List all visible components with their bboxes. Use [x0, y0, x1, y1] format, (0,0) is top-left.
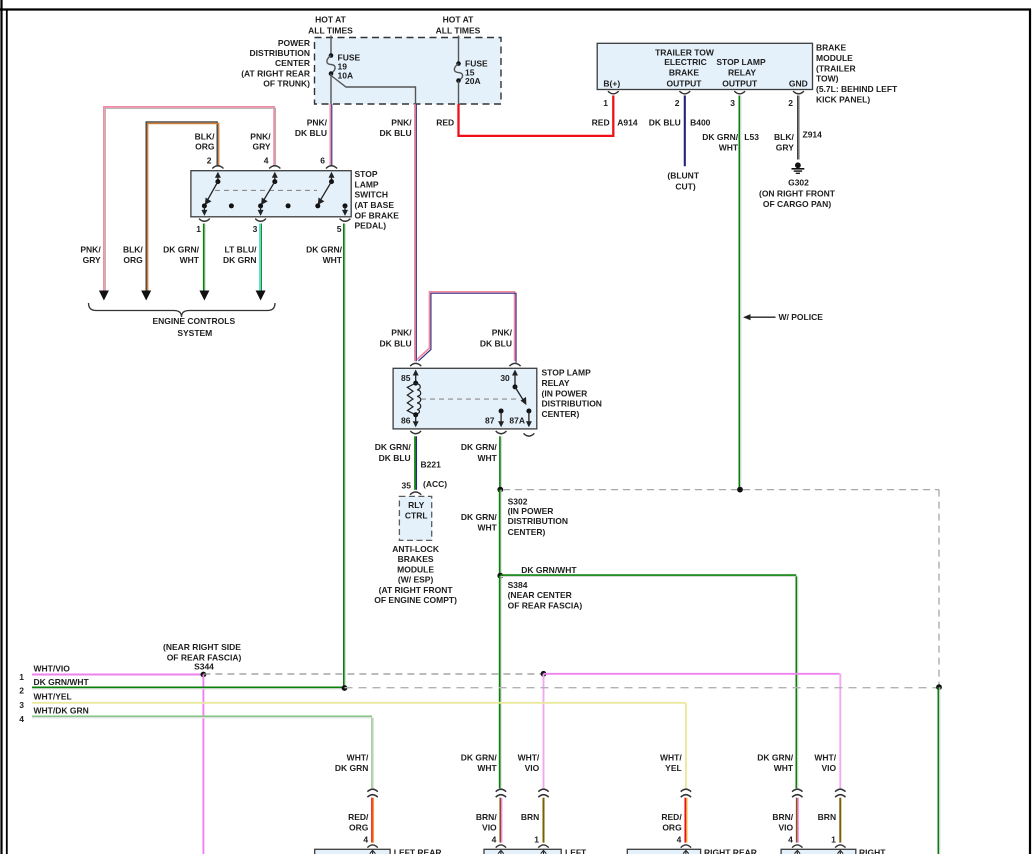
svg-text:CTRL: CTRL	[405, 511, 428, 521]
pin 1 number	[534, 835, 539, 845]
svg-text:HOT AT: HOT AT	[315, 15, 346, 25]
svg-text:OF BRAKE: OF BRAKE	[355, 210, 400, 220]
switch pin 5 connector arc	[340, 219, 351, 222]
svg-text:BRN: BRN	[818, 812, 836, 822]
svg-text:B400: B400	[690, 118, 711, 128]
pin 1 number	[831, 835, 836, 845]
inline connector at x=372.6 (WHT/DK GRN to RED/ORG)	[367, 789, 377, 797]
wire W/ POLICE arrow	[743, 314, 776, 320]
svg-text:STOP LAMP: STOP LAMP	[542, 368, 592, 378]
svg-text:4: 4	[19, 714, 24, 724]
label DK GRN/WHT (wire 2)	[34, 677, 90, 687]
page frame right border	[1029, 10, 1031, 854]
svg-text:BRN: BRN	[521, 812, 539, 822]
wire DK GRN/WHT right side down to bottom	[938, 687, 939, 854]
wire from HOT AT to fuse 19	[330, 36, 332, 56]
node S344 junction dot	[201, 672, 207, 678]
wire WHT/VIO splice to right lamp	[544, 674, 841, 788]
label S302 (IN POWER DISTRIBUTION CENTER)	[508, 496, 568, 537]
label BRN/VIO (below connector)	[772, 812, 793, 832]
label BLK/GRY / Z914	[774, 130, 822, 153]
inline connector at x=797.3 (DK GRN/WHT to BRN/VIO)	[792, 789, 802, 797]
svg-text:4: 4	[788, 835, 793, 845]
svg-text:BLK/: BLK/	[774, 132, 794, 142]
svg-text:PEDAL): PEDAL)	[355, 221, 387, 231]
wire fuse 19 branch to second output	[331, 76, 416, 105]
label B(+)	[603, 78, 620, 88]
svg-text:RED: RED	[592, 118, 610, 128]
svg-text:L53: L53	[744, 132, 759, 142]
pin 2 connector arc GND	[793, 91, 804, 94]
page frame left outer border	[0, 0, 2, 854]
wire 2 DK GRN/WHT horizontal	[32, 687, 345, 688]
label ELECTRIC BRAKE OUTPUT	[664, 57, 707, 88]
svg-text:KICK PANEL): KICK PANEL)	[816, 95, 870, 105]
svg-text:ORG: ORG	[662, 822, 682, 832]
svg-text:DISTRIBUTION: DISTRIBUTION	[250, 48, 310, 58]
label PNK/GRY (pin 4)	[250, 132, 271, 152]
svg-text:CUT): CUT)	[675, 181, 695, 191]
svg-text:WHT/VIO: WHT/VIO	[34, 663, 71, 673]
switch pin 4 number	[264, 156, 269, 166]
wire 4 number	[19, 714, 24, 724]
svg-text:3: 3	[253, 224, 258, 234]
svg-text:DK GRN/: DK GRN/	[461, 753, 498, 763]
label LEFT REAR	[394, 848, 442, 854]
svg-text:CENTER): CENTER)	[508, 527, 546, 537]
svg-text:DK GRN/: DK GRN/	[461, 442, 498, 452]
svg-text:WHT/: WHT/	[518, 753, 540, 763]
svg-text:VIO: VIO	[821, 763, 836, 773]
label WHT/VIO (above connector)	[814, 753, 836, 773]
engine controls arrow 3 (DK GRN/WHT)	[199, 291, 209, 301]
svg-text:30: 30	[500, 373, 510, 383]
label DK GRN/WHT (above connector)	[757, 753, 794, 773]
wire fuse 19 output inside PDC	[330, 74, 332, 104]
svg-text:STOP LAMP: STOP LAMP	[716, 57, 766, 67]
svg-text:RELAY: RELAY	[542, 378, 570, 388]
svg-text:5: 5	[337, 224, 342, 234]
fuse 19 symbol	[327, 53, 335, 76]
switch pin 6 number	[320, 156, 325, 166]
label G302 (ON RIGHT FRONT OF CARGO PAN)	[759, 177, 836, 208]
wire DK GRN/WHT relay 87 down to S302	[500, 436, 501, 489]
switch pole A open contact dot	[229, 203, 234, 208]
svg-text:ANTI-LOCK: ANTI-LOCK	[392, 544, 440, 554]
wire BLK/GRY GND to G302	[798, 96, 799, 160]
svg-text:3: 3	[19, 700, 24, 710]
svg-text:PNK/: PNK/	[307, 118, 328, 128]
svg-text:BRN/: BRN/	[772, 812, 793, 822]
svg-text:1: 1	[196, 224, 201, 234]
label PNK/GRY (engine controls)	[80, 245, 101, 265]
switch pole B pin 4	[258, 172, 278, 216]
wire PNK/DK BLU relay pin 85 to pin 30 loop	[417, 292, 516, 363]
svg-text:VIO: VIO	[482, 822, 497, 832]
wire DK BLU blunt cut	[684, 96, 686, 167]
label TRAILER TOW header	[655, 47, 715, 57]
svg-text:(TRAILER: (TRAILER	[816, 63, 856, 73]
svg-text:DK BLU: DK BLU	[379, 128, 411, 138]
switch pin 2 number	[207, 156, 212, 166]
label DK GRN/WHT (S384 branch)	[521, 565, 577, 575]
stop lamp relay box	[393, 368, 537, 429]
label WHT/VIO	[34, 663, 71, 673]
svg-text:HOT AT: HOT AT	[443, 15, 474, 25]
svg-text:6: 6	[320, 156, 325, 166]
label DK GRN/WHT / L53	[702, 132, 759, 153]
engine controls system brace	[89, 303, 276, 317]
wire 4 WHT/DK GRN horizontal and down	[32, 716, 373, 788]
svg-text:BLK/: BLK/	[195, 132, 215, 142]
svg-text:DK GRN/: DK GRN/	[702, 132, 739, 142]
wire DK GRN/DK BLU relay 86 to ABS module	[415, 436, 416, 490]
page frame top border	[0, 8, 1031, 10]
label STOP LAMP RELAY OUTPUT	[716, 57, 766, 88]
label DK GRN/WHT (above connector)	[461, 753, 498, 773]
svg-text:(AT RIGHT FRONT: (AT RIGHT FRONT	[379, 585, 454, 595]
pin 2 connector arc electric brake output	[679, 91, 690, 94]
svg-text:LEFT REAR: LEFT REAR	[394, 848, 442, 854]
relay pin 85 number	[401, 373, 411, 383]
label RED/ORG (below connector)	[661, 812, 682, 832]
relay pin 30 connector arc	[509, 363, 520, 366]
svg-text:DK GRN/WHT: DK GRN/WHT	[521, 565, 577, 575]
svg-text:2: 2	[19, 685, 24, 695]
wire PNK/DK BLU second PDC output to relay pin 85	[415, 104, 416, 361]
switch pole A pin 2	[201, 172, 221, 216]
svg-text:(IN POWER: (IN POWER	[542, 388, 588, 398]
engine controls arrow 4 (LT BLU/DK GRN)	[256, 291, 266, 301]
svg-text:(NEAR RIGHT SIDE: (NEAR RIGHT SIDE	[163, 642, 241, 652]
pin 3 connector arc stop lamp relay output	[734, 91, 745, 94]
svg-text:OF ENGINE COMPT): OF ENGINE COMPT)	[374, 595, 457, 605]
label DK GRN/WHT (engine controls)	[163, 245, 200, 265]
svg-text:VIO: VIO	[778, 822, 793, 832]
dashed bus S302 to right	[503, 489, 939, 491]
relay pin 87A connector arc	[524, 433, 535, 436]
relay pin 86 exit arrow	[413, 415, 419, 428]
svg-text:WHT: WHT	[323, 255, 343, 265]
relay contact 87 dot and exit arrow	[498, 409, 504, 428]
svg-text:GRY: GRY	[83, 255, 101, 265]
svg-text:RELAY: RELAY	[728, 67, 756, 77]
svg-text:4: 4	[492, 835, 497, 845]
wire WHT/VIO splice down to left lamp	[543, 674, 545, 788]
pin 4 number	[363, 835, 368, 845]
wire BLK/ORG pin 2 loop to engine controls	[146, 122, 218, 292]
svg-text:2: 2	[675, 98, 680, 108]
node junction dot green wire on S302 bus	[737, 487, 743, 493]
ABS module pin 35 connector arc	[410, 492, 421, 495]
label LT BLU/DK GRN (engine controls)	[223, 245, 257, 265]
wire PNK/DK BLU fuse 19 to stop lamp switch pin 6	[330, 104, 331, 165]
switch internal dashed line	[215, 189, 317, 191]
svg-text:BRAKES: BRAKES	[398, 554, 434, 564]
label W/ POLICE	[779, 312, 824, 322]
node S302 junction dot	[497, 487, 503, 493]
label BLK/ORG (engine controls)	[123, 245, 143, 265]
pin 2 number (GND)	[788, 98, 793, 108]
wire DK GRN/WHT S384 branch right and down	[500, 575, 798, 788]
right lamp box	[781, 845, 856, 854]
svg-text:DK GRN/: DK GRN/	[306, 245, 343, 255]
svg-text:OUTPUT: OUTPUT	[722, 78, 758, 88]
svg-text:GRY: GRY	[776, 143, 794, 153]
switch pin 3 number	[253, 224, 258, 234]
svg-text:ALL TIMES: ALL TIMES	[308, 25, 353, 35]
svg-text:MODULE: MODULE	[816, 53, 853, 63]
svg-text:Z914: Z914	[803, 130, 823, 140]
switch pin 5 number	[337, 224, 342, 234]
svg-text:85: 85	[401, 373, 411, 383]
label RLY CTRL	[405, 500, 428, 520]
svg-text:WHT/DK GRN: WHT/DK GRN	[34, 706, 89, 716]
svg-text:(AT BASE: (AT BASE	[355, 200, 395, 210]
svg-text:PNK/: PNK/	[391, 327, 412, 337]
svg-text:1: 1	[534, 835, 539, 845]
wire fuse 15 output inside PDC	[458, 81, 460, 104]
svg-text:OF REAR FASCIA): OF REAR FASCIA)	[508, 600, 583, 610]
svg-text:RIGHT REAR: RIGHT REAR	[704, 848, 757, 854]
anti-lock brakes module RLY CTRL box (dashed)	[399, 496, 431, 540]
svg-text:A914: A914	[617, 118, 638, 128]
fuse 15 symbol	[454, 61, 462, 83]
svg-text:YEL: YEL	[665, 763, 682, 773]
label WHT/DK GRN	[34, 706, 89, 716]
svg-text:ELECTRIC: ELECTRIC	[664, 57, 707, 67]
svg-text:LEFT: LEFT	[565, 848, 587, 854]
svg-text:PNK/: PNK/	[391, 118, 412, 128]
wire DK GRN/WHT switch pin 1 to engine controls	[204, 224, 205, 291]
wire 1 number	[19, 672, 24, 682]
pin 4 number	[788, 835, 793, 845]
label RIGHT REAR	[704, 848, 757, 854]
label BRN/VIO (below connector)	[476, 812, 497, 832]
wire BRN/VIO connector to lamp box	[797, 798, 798, 843]
svg-text:S384: S384	[508, 580, 528, 590]
wire RED/ORG connector to lamp box	[685, 798, 686, 843]
label PNK/DK BLU (relay wire)	[379, 118, 412, 139]
pin 3 number	[730, 98, 735, 108]
page frame left inner border	[6, 10, 8, 854]
label FUSE 15 20A	[465, 59, 488, 87]
label PNK/DK BLU (left of relay)	[379, 327, 412, 348]
svg-text:WHT: WHT	[180, 255, 200, 265]
wire 3 number	[19, 700, 24, 710]
svg-text:WHT: WHT	[477, 522, 497, 532]
relay pin 30 number	[500, 373, 510, 383]
engine controls arrow 2 (BLK/ORG)	[141, 291, 151, 301]
node junction dot wire 2 to pin 5 wire	[342, 685, 348, 691]
svg-text:ORG: ORG	[123, 255, 143, 265]
relay pin 85 connector arc	[410, 363, 421, 366]
dashed bus S344 to right	[203, 673, 543, 675]
pin 35 number and (ACC)	[402, 479, 448, 491]
svg-text:4: 4	[363, 835, 368, 845]
label STOP LAMP RELAY (IN POWER DISTRIBUTION CENTER)	[542, 368, 602, 420]
label WHT/YEL (above connector)	[660, 753, 682, 773]
svg-text:OF CARGO PAN): OF CARGO PAN)	[763, 199, 831, 209]
svg-text:DISTRIBUTION: DISTRIBUTION	[508, 516, 568, 526]
brake module (trailer tow) box	[597, 43, 812, 89]
svg-text:CENTER): CENTER)	[542, 409, 580, 419]
left rear lamp box	[315, 845, 390, 854]
svg-text:PNK/: PNK/	[80, 245, 101, 255]
label PNK/DK BLU (pin 6 wire)	[295, 118, 328, 139]
inline connector at x=685.9 (WHT/YEL to RED/ORG)	[681, 789, 691, 797]
svg-text:G302: G302	[788, 177, 809, 187]
switch pole B open contact dot	[286, 203, 291, 208]
svg-text:DK BLU: DK BLU	[379, 453, 411, 463]
svg-text:DK BLU: DK BLU	[649, 118, 681, 128]
relay pin 30 arrow and movable contact	[512, 370, 526, 406]
svg-text:2: 2	[788, 98, 793, 108]
label DK GRN/WHT (above S384)	[461, 512, 498, 532]
svg-text:ORG: ORG	[195, 142, 215, 152]
svg-text:RED/: RED/	[661, 812, 682, 822]
svg-text:TOW): TOW)	[816, 74, 839, 84]
label WHT/YEL	[34, 692, 72, 702]
svg-text:S344: S344	[194, 662, 214, 672]
switch pin 2 connector arc	[212, 166, 223, 169]
wire 1 WHT/VIO horizontal	[32, 674, 203, 676]
wire 2 number	[19, 685, 24, 695]
svg-text:DK GRN/: DK GRN/	[757, 753, 794, 763]
wire 3 WHT/YEL horizontal and down	[32, 703, 686, 788]
label GND	[789, 78, 808, 88]
relay pin 87 connector arc	[496, 431, 507, 434]
svg-text:MODULE: MODULE	[397, 564, 434, 574]
wire DK GRN/WHT switch pin 5 down to S384 splice row	[344, 224, 345, 689]
pin 1 number	[603, 98, 608, 108]
svg-text:(ACC): (ACC)	[423, 479, 447, 489]
label DK BLU / B400	[649, 118, 711, 128]
label S384 (NEAR CENTER OF REAR FASCIA)	[508, 580, 583, 610]
dashed bus wire 2 to right	[345, 687, 940, 689]
engine controls arrow 1 (PNK/GRY)	[99, 291, 109, 301]
label HOT AT ALL TIMES (left)	[308, 15, 353, 36]
svg-text:SYSTEM: SYSTEM	[177, 328, 212, 338]
label ANTI-LOCK BRAKES MODULE (W/ ESP) (AT RIGHT FRONT OF ENGINE COMPT)	[374, 544, 457, 605]
svg-text:SWITCH: SWITCH	[355, 190, 389, 200]
label (BLUNT CUT)	[667, 171, 699, 192]
switch pole C pin 6	[315, 172, 334, 209]
relay internal dashed line	[421, 398, 518, 400]
svg-text:DK GRN: DK GRN	[223, 255, 257, 265]
label BRAKE MODULE (TRAILER TOW) (5.7L: BEHIND LEFT KICK PANEL)	[816, 43, 898, 105]
svg-text:RED: RED	[436, 118, 454, 128]
node S384 junction dot	[497, 573, 503, 579]
label STOP LAMP SWITCH (AT BASE OF BRAKE PEDAL)	[355, 169, 400, 231]
wire BRN/VIO connector to lamp box	[500, 798, 501, 843]
svg-text:WHT: WHT	[477, 453, 497, 463]
svg-text:ENGINE CONTROLS: ENGINE CONTROLS	[152, 316, 235, 326]
label RED/ORG (below connector)	[348, 812, 369, 832]
svg-text:DK BLU: DK BLU	[480, 339, 512, 349]
svg-text:LAMP: LAMP	[355, 179, 379, 189]
label RED / A914	[592, 118, 638, 128]
stop lamp switch box	[191, 171, 351, 217]
svg-text:4: 4	[677, 835, 682, 845]
svg-text:RIGHT: RIGHT	[859, 848, 886, 854]
svg-text:GND: GND	[789, 78, 808, 88]
svg-text:(IN POWER: (IN POWER	[508, 506, 554, 516]
svg-text:87A: 87A	[509, 416, 525, 426]
relay pin 85 arrow and coil	[407, 370, 420, 418]
inline connector at x=840.3 (WHT/VIO to BRN)	[835, 789, 845, 797]
svg-text:WHT/YEL: WHT/YEL	[34, 692, 72, 702]
svg-text:GRY: GRY	[252, 142, 270, 152]
svg-text:DK GRN/: DK GRN/	[461, 512, 498, 522]
label ENGINE CONTROLS SYSTEM	[152, 316, 235, 338]
relay pin 87 number	[485, 416, 495, 426]
svg-text:BLK/: BLK/	[123, 245, 143, 255]
svg-text:WHT/: WHT/	[347, 753, 369, 763]
label BRN (below connector)	[818, 812, 836, 822]
svg-text:OUTPUT: OUTPUT	[667, 78, 703, 88]
right rear lamp box	[627, 845, 700, 854]
svg-text:STOP: STOP	[355, 169, 378, 179]
svg-text:DK GRN/WHT: DK GRN/WHT	[34, 677, 90, 687]
label HOT AT ALL TIMES (right)	[436, 15, 481, 36]
svg-text:(BLUNT: (BLUNT	[667, 171, 699, 181]
switch pin 5 contact and exit	[342, 203, 348, 216]
relay pin 86 number	[401, 416, 411, 426]
inline connector at x=500.9 (DK GRN/WHT to BRN/VIO)	[496, 789, 506, 797]
switch pin 6 connector arc	[326, 166, 337, 169]
svg-text:4: 4	[264, 156, 269, 166]
relay pin 87A number	[509, 416, 525, 426]
svg-text:1: 1	[603, 98, 608, 108]
pin 2 number	[675, 98, 680, 108]
dashed bus vertical right side	[938, 490, 940, 687]
svg-text:10A: 10A	[338, 70, 354, 80]
svg-text:DK BLU: DK BLU	[379, 339, 411, 349]
svg-text:DK GRN/: DK GRN/	[375, 442, 412, 452]
svg-text:(AT RIGHT REAR: (AT RIGHT REAR	[241, 68, 310, 78]
svg-text:BRN/: BRN/	[476, 812, 497, 822]
label DK GRN/WHT (pin 5 wire)	[306, 245, 343, 265]
svg-text:1: 1	[831, 835, 836, 845]
label POWER DISTRIBUTION CENTER (AT RIGHT REAR OF TRUNK)	[241, 38, 310, 89]
svg-text:BRAKE: BRAKE	[669, 67, 700, 77]
switch pin 1 number	[196, 224, 201, 234]
svg-text:BRAKE: BRAKE	[816, 43, 847, 53]
label FUSE 19 10A	[338, 53, 361, 81]
svg-text:35: 35	[402, 481, 412, 491]
svg-text:(NEAR CENTER: (NEAR CENTER	[508, 590, 572, 600]
svg-text:(5.7L: BEHIND LEFT: (5.7L: BEHIND LEFT	[816, 84, 898, 94]
svg-text:WHT: WHT	[774, 763, 794, 773]
wire DK GRN/WHT S302 to S384	[500, 490, 501, 576]
wire LT BLU/DK GRN switch pin 3 to engine controls	[260, 224, 261, 291]
wire WHT/VIO S344 down to bottom edge	[202, 675, 204, 854]
label WHT/DK GRN (above connector)	[335, 753, 369, 773]
label RIGHT	[859, 848, 886, 854]
label DK GRN/DK BLU	[375, 442, 412, 463]
svg-text:WHT/: WHT/	[660, 753, 682, 763]
label BLK/ORG (pin 2)	[195, 132, 215, 152]
node junction dot right dashed corner	[936, 684, 942, 690]
pin 4 number	[492, 835, 497, 845]
svg-text:TRAILER TOW: TRAILER TOW	[655, 47, 715, 57]
wire BRN connector to lamp box	[839, 798, 841, 843]
label LEFT	[565, 848, 587, 854]
svg-text:DISTRIBUTION: DISTRIBUTION	[542, 399, 602, 409]
svg-text:2: 2	[207, 156, 212, 166]
wire RED fuse 15 to trailer tow B(+)	[459, 96, 614, 138]
